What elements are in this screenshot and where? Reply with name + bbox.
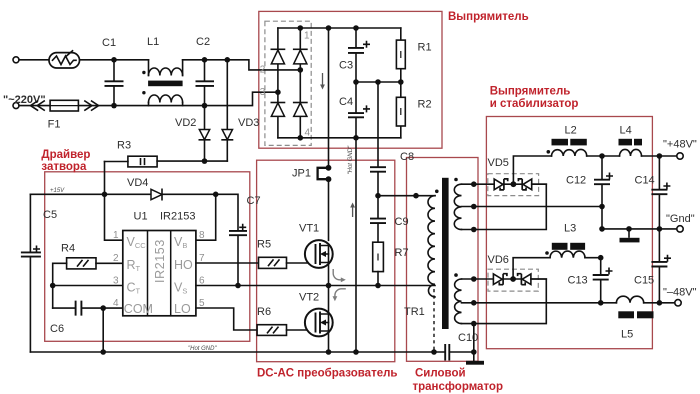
node: C7 bottom on VS rail (235, 283, 241, 289)
polarity + of C12 (607, 173, 612, 178)
resistor R4 (67, 258, 96, 269)
wire: VD6 output up to L3 rail (513, 258, 550, 279)
svg-text:8: 8 (199, 230, 205, 241)
svg-text:C8: C8 (400, 151, 414, 163)
node: C13 top (598, 255, 604, 261)
wire: sec top tap2 common (462, 206, 603, 208)
inductor L3 (550, 251, 585, 258)
node: midpoint at VT column (326, 283, 332, 289)
node: sec tap2 (471, 204, 477, 210)
svg-text:R5: R5 (257, 239, 271, 251)
wire: C12 bottom to gnd rail (601, 207, 603, 229)
svg-text:"+48V": "+48V" (663, 139, 697, 151)
svg-text:VD2: VD2 (175, 117, 196, 129)
ferrite bars L4 (619, 139, 643, 146)
svg-text:трансформатор: трансформатор (413, 381, 503, 393)
node: midpoint at R column (398, 79, 404, 85)
wire: R5 to VT1 gate (287, 262, 316, 264)
transformer TR1 secondary top winding (454, 184, 461, 229)
svg-text:C5: C5 (43, 209, 57, 221)
ferrite bars L3 (552, 243, 585, 250)
phase dot L1 top (142, 71, 145, 74)
node: JP1 top pin (326, 165, 332, 171)
wire: VT2 drain from midpoint (328, 286, 330, 315)
IC U1 IR2153 body (123, 231, 196, 316)
transformer TR1 primary winding (428, 196, 435, 297)
capacitor C5 (21, 194, 41, 352)
node: sec tap5 (471, 300, 477, 306)
svg-text:L4: L4 (620, 125, 632, 137)
polarity + of C4 (364, 106, 369, 111)
terminal: AC input top (13, 57, 19, 63)
svg-text:C6: C6 (50, 323, 64, 335)
thermistor RK (49, 51, 80, 68)
node: midpoint at C column (353, 79, 359, 85)
svg-text:VD6: VD6 (488, 254, 509, 266)
svg-text:R6: R6 (257, 306, 271, 318)
svg-text:C9: C9 (395, 216, 409, 228)
wire: AC top rail (19, 60, 300, 70)
current arrow up on hot gnd column (350, 203, 355, 218)
svg-text:L3: L3 (564, 223, 576, 235)
terminal Gnd (677, 226, 683, 232)
node: shield on hot gnd rail (431, 349, 437, 355)
wire: AC bottom rail (19, 92, 278, 105)
resistor R3 (128, 156, 157, 167)
phase dot L2 (547, 150, 551, 154)
node: bridge pin3 (275, 89, 281, 95)
svg-text:1: 1 (304, 31, 310, 42)
fuse F1 (50, 100, 78, 111)
inductor L5 (616, 296, 643, 303)
wire: R6 to VT2 gate (287, 329, 316, 331)
node: C1 top junction (111, 57, 117, 63)
svg-text:C13: C13 (568, 275, 588, 287)
wire: bridge bottom rail (278, 137, 401, 139)
diode VD6 right (518, 274, 547, 285)
phase dot L1 bottom (142, 91, 145, 94)
svg-text:VD5: VD5 (488, 157, 509, 169)
diode VD3 (222, 130, 232, 162)
svg-text:IR2153: IR2153 (153, 239, 167, 283)
capacitor C7 (229, 231, 247, 286)
capacitor C12 (594, 156, 610, 207)
wire: pin8 VB stub (196, 194, 216, 240)
ferrite bars L5 (618, 311, 653, 318)
node: hot gnd at VT column (326, 349, 332, 355)
wire: bridge left column (277, 28, 279, 138)
node: -48 rail at C13 (598, 300, 604, 306)
wire: Vcc column (105, 162, 123, 241)
capacitor C9 (370, 196, 386, 243)
capacitor C3 (348, 28, 364, 82)
wire: pin5 LO to R6 (196, 308, 257, 330)
svg-text:JP1: JP1 (292, 168, 311, 180)
terminal +48V (677, 153, 683, 159)
node: JP1 bottom pin (326, 176, 332, 182)
svg-text:Выпрямитель: Выпрямитель (448, 11, 529, 23)
polarity + of C15 (665, 256, 670, 261)
wire: COM node down to hot gnd rail (102, 308, 104, 352)
node: midpoint at C8 column (375, 79, 381, 85)
ground symbol (620, 229, 640, 243)
connector chevrons left of F1 (31, 101, 45, 110)
svg-text:HO: HO (174, 258, 193, 272)
wire: VD2 column (204, 106, 206, 130)
wire: bridge top rail (278, 27, 401, 29)
node: C2 top junction (202, 57, 208, 63)
wire: L3 to C13 node (585, 257, 601, 259)
red box: gate driver section (45, 172, 250, 341)
transformer TR1 secondary bottom winding (455, 279, 462, 324)
svg-text:C10: C10 (458, 332, 478, 344)
diode bridge D-right-top (294, 49, 307, 64)
capacitor C1 (105, 60, 124, 106)
inductor L1 common-mode choke (148, 60, 183, 106)
svg-text:и стабилизатор: и стабилизатор (490, 98, 579, 110)
svg-text:2: 2 (260, 65, 266, 76)
svg-text:C14: C14 (635, 175, 655, 187)
svg-text:3: 3 (113, 276, 119, 287)
polarity + of C14 (664, 183, 669, 188)
node: primary top tap (413, 193, 419, 199)
terminal: AC input bottom (13, 103, 19, 109)
polarity + of C7 (240, 225, 245, 230)
svg-text:L5: L5 (621, 329, 633, 341)
wire: junction to primary top (378, 195, 435, 197)
capacitor C13 (593, 258, 609, 303)
diode bridge D-left-top (271, 49, 284, 64)
red box: bridge rectifier section (259, 11, 442, 148)
node: C14 bottom (657, 226, 663, 232)
node: C10 right junction (471, 349, 477, 355)
wire: sec top tap3 (462, 184, 547, 229)
diode VD6 left (493, 274, 521, 285)
svg-text:+15V: +15V (50, 188, 65, 194)
diode bridge D-left-bottom (271, 103, 284, 117)
wire: hot gnd bottom rail (30, 351, 445, 353)
svg-text:C2: C2 (196, 36, 210, 48)
node: sec tap1 (471, 181, 477, 187)
svg-text:DC-AC преобразователь: DC-AC преобразователь (257, 368, 397, 380)
svg-text:3: 3 (260, 87, 266, 98)
svg-text:C15: C15 (634, 275, 654, 287)
node: C14 top (657, 153, 663, 159)
node: C2 bottom junction (202, 103, 208, 109)
svg-text:R7: R7 (395, 247, 409, 259)
node: COM pin4 junction (100, 305, 106, 311)
capacitor C15 (651, 229, 667, 303)
chassis ground bar (466, 361, 484, 365)
node: bridge bottom right (298, 135, 304, 141)
wire: gnd rail (602, 228, 677, 230)
node: gnd symbol stub (626, 226, 632, 232)
wire: bridge midpoint rail (356, 81, 401, 83)
node: bridge pin2 (298, 67, 304, 73)
node: C4 bottom (353, 135, 359, 141)
wire: VD5 output up to +48 rail (513, 156, 551, 184)
svg-text:R2: R2 (418, 99, 432, 111)
svg-text:"–48V": "–48V" (663, 287, 697, 299)
diode bridge D-right-bottom (294, 103, 307, 117)
node: hot gnd at COM column (100, 349, 106, 355)
node: common tap at C12 (599, 204, 605, 210)
wire: sec bottom tap1 (462, 278, 494, 280)
dashed box: VD5 (488, 174, 539, 196)
wire: VD3 column (226, 60, 228, 130)
node: CT pin3 junction (50, 283, 56, 289)
svg-text:VD3: VD3 (238, 117, 259, 129)
wire: sec bottom tap3 (462, 279, 547, 324)
node: VD3 column top junction (225, 57, 231, 63)
polarity + of C13 (606, 268, 611, 273)
wire: L4 to +48V terminal (642, 155, 678, 157)
svg-text:Выпрямитель: Выпрямитель (490, 86, 571, 98)
svg-text:R1: R1 (418, 42, 432, 54)
red box: rectifier and stabilizer section (486, 117, 652, 349)
wire: bridge right column (299, 28, 301, 138)
wire: pin3 CT stub (53, 285, 123, 287)
red box: power transformer section (407, 158, 479, 362)
svg-text:R4: R4 (61, 243, 75, 255)
svg-text:L2: L2 (565, 125, 577, 137)
phase dot primary (435, 190, 439, 194)
phase dot secondary bottom (454, 273, 458, 277)
wire: sec bottom tap2 common (462, 302, 601, 304)
capacitor C4 (348, 82, 364, 138)
svg-text:R3: R3 (117, 140, 131, 152)
svg-text:затвора: затвора (41, 161, 87, 173)
capacitor C14 (651, 156, 667, 229)
svg-text:F1: F1 (48, 119, 61, 131)
svg-text:4: 4 (305, 128, 311, 139)
polarity + of C3 (364, 42, 369, 47)
capacitor C2 (196, 60, 215, 106)
node: C3 top (353, 25, 359, 31)
transistor VT2 MOSFET (305, 309, 333, 337)
svg-text:VT2: VT2 (299, 292, 319, 304)
svg-text:1: 1 (113, 230, 119, 241)
node: hot gnd rail at column (353, 349, 359, 355)
svg-text:"Hot GND": "Hot GND" (348, 145, 354, 174)
current arrow down inside bridge box (320, 73, 325, 90)
node: +15V rail junction (102, 192, 108, 198)
diode VD2 (199, 130, 209, 162)
svg-text:VD4: VD4 (127, 177, 148, 189)
node: C1 bottom junction (111, 103, 117, 109)
node: VD6 common cathode (510, 276, 516, 282)
shield dashed wire (433, 289, 435, 350)
current arrow near VT2 drain (335, 289, 346, 298)
transistor VT1 MOSFET (305, 240, 333, 268)
resistor R2 (396, 82, 405, 138)
inductor L2 (552, 149, 587, 156)
inductor L4 (620, 149, 642, 156)
wire: VT1 source to midpoint (328, 263, 330, 286)
node: R7 bottom on VS rail (375, 283, 381, 289)
dashed box: diode bridge (265, 21, 311, 145)
svg-text:LO: LO (174, 302, 191, 316)
wire: pin6 VS rail to primary (196, 285, 435, 287)
svg-text:L1: L1 (147, 36, 159, 48)
ferrite bars L2 (552, 139, 587, 146)
svg-text:Силовой: Силовой (415, 368, 466, 380)
node: sec tap3 (471, 227, 477, 233)
jumper JP1 (318, 168, 329, 179)
capacitor C10 (445, 344, 474, 361)
svg-text:C1: C1 (102, 37, 116, 49)
red box: DC-AC converter section (257, 160, 395, 362)
wire: sec top tap1 (462, 183, 495, 185)
capacitor C8 (370, 82, 386, 196)
svg-text:C3: C3 (339, 60, 353, 72)
wire: VT2 source to hot gnd (328, 331, 330, 352)
polarity + of C5 (34, 246, 39, 251)
node: C12 top (599, 153, 605, 159)
wire: L5 to -48V terminal (644, 302, 675, 304)
transformer TR1 core (442, 178, 449, 329)
resistor R1 (396, 28, 405, 82)
node: C8-C9 junction (375, 193, 381, 199)
node: sec tap4 (471, 276, 477, 282)
wire: pin7 HO to R5 (196, 262, 259, 264)
capacitor C6 (53, 301, 123, 316)
diode VD5 right (518, 179, 546, 190)
diode VD5 left (494, 179, 522, 190)
node: C15 bottom (657, 300, 663, 306)
svg-text:C4: C4 (339, 96, 353, 108)
svg-text:C12: C12 (566, 175, 586, 187)
node: bridge top right (298, 25, 304, 31)
svg-text:Драйвер: Драйвер (41, 149, 90, 161)
node: VD4 cathode junction (213, 192, 219, 198)
wire: half-bridge DC feed column (328, 28, 330, 240)
svg-text:"Hot GND": "Hot GND" (188, 346, 217, 352)
node: VD2 cathode junction (202, 158, 208, 164)
svg-text:4: 4 (113, 298, 119, 309)
wire: C10 right up to secondary tap (473, 324, 475, 361)
wire: hot gnd column from bridge (355, 138, 357, 352)
svg-text:TR1: TR1 (404, 306, 425, 318)
svg-text:VT1: VT1 (299, 223, 319, 235)
svg-text:IR2153: IR2153 (160, 210, 195, 222)
resistor R6 (257, 325, 286, 336)
diode VD4 bootstrap (151, 189, 216, 199)
connector chevrons right of F1 (85, 101, 99, 110)
resistor R7 (373, 242, 384, 285)
node: sec tap6 (471, 321, 477, 327)
node: gnd rail left (599, 226, 605, 232)
wire: R3 left to Vcc column (105, 160, 228, 162)
wire: C13 node to L5 (601, 302, 617, 304)
svg-text:U1: U1 (134, 210, 148, 222)
wire: R4 left down to CT node (53, 263, 123, 308)
node: VD5 common cathode (511, 181, 517, 187)
svg-text:2: 2 (113, 253, 119, 264)
svg-text:"Gnd": "Gnd" (666, 213, 695, 225)
phase dot secondary top (454, 178, 458, 182)
wire: bootstrap to C7 (216, 194, 238, 230)
current arrow near VT1 source (333, 269, 342, 280)
phase dot L3 (545, 251, 549, 255)
dashed box: VD6 (488, 269, 538, 291)
node: DC feed on top rail (326, 25, 332, 31)
wire: L2 to L4 (587, 155, 620, 157)
resistor R5 (259, 257, 287, 268)
wire: +15V rail (30, 193, 151, 195)
terminal -48V (675, 300, 681, 306)
svg-text:C7: C7 (247, 195, 261, 207)
svg-text:COM: COM (124, 302, 153, 316)
